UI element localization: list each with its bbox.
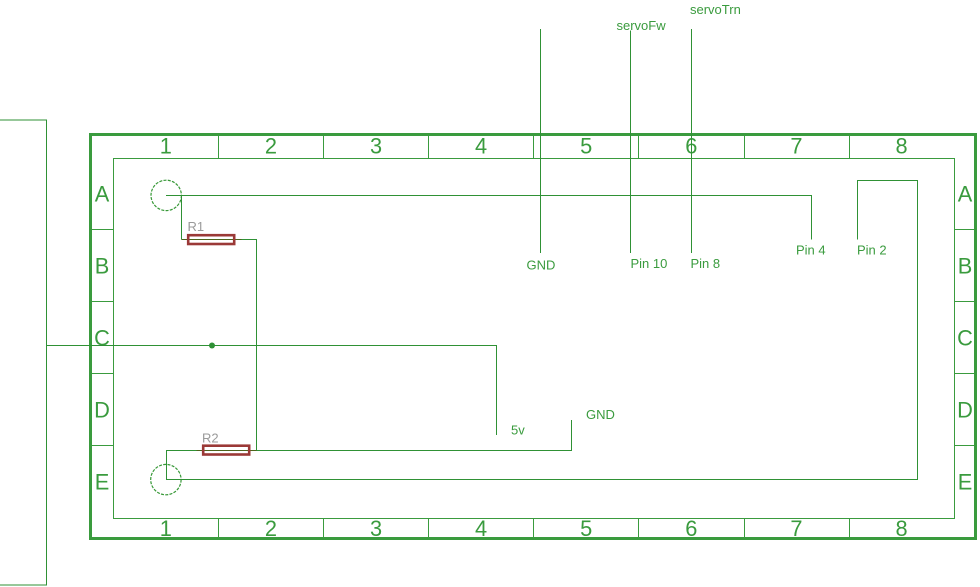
svg-text:GND: GND [586, 407, 615, 422]
svg-text:6: 6 [685, 516, 697, 541]
svg-text:D: D [94, 398, 110, 423]
resistor R2 [203, 446, 249, 455]
svg-text:7: 7 [790, 133, 802, 158]
svg-text:Pin 4: Pin 4 [796, 243, 826, 258]
svg-text:5: 5 [580, 133, 592, 158]
column labels 1-8 bottom [160, 516, 908, 541]
svg-text:Pin 2: Pin 2 [857, 243, 887, 258]
breadboard inner rect [114, 159, 955, 519]
svg-text:servoFw: servoFw [617, 18, 667, 33]
svg-text:E: E [95, 470, 110, 495]
svg-text:C: C [957, 326, 973, 351]
resistor R1 lead [182, 239, 242, 241]
wire A1 branch down to R1 [181, 196, 183, 240]
wire R2 left to hole E1 [167, 451, 197, 480]
wire net C from off-board component, with 5v stub [47, 346, 497, 436]
column labels 1-8 top [160, 133, 908, 158]
svg-text:2: 2 [265, 133, 277, 158]
svg-text:8: 8 [895, 133, 907, 158]
row divider ticks, right column [955, 230, 975, 446]
wire servoTrn vertical [691, 29, 693, 253]
wire E1 to Pin 2 [166, 181, 918, 480]
svg-text:3: 3 [370, 516, 382, 541]
breadboard outer border [91, 135, 976, 539]
svg-text:5v: 5v [511, 423, 525, 438]
svg-text:3: 3 [370, 133, 382, 158]
svg-text:4: 4 [475, 516, 487, 541]
svg-text:1: 1 [160, 133, 172, 158]
svg-text:D: D [957, 398, 973, 423]
svg-text:B: B [95, 254, 110, 279]
row labels A-E right [957, 182, 973, 495]
row labels A-E left [94, 182, 110, 495]
svg-text:1: 1 [160, 516, 172, 541]
hole E1 (dashed circle) [151, 464, 181, 494]
wire GND vertical (column 5) [540, 29, 542, 253]
svg-text:7: 7 [790, 516, 802, 541]
wire A1 to Pin 4 [166, 196, 811, 240]
wire R2 right to GND stub [257, 420, 572, 451]
svg-text:servoTrn: servoTrn [690, 2, 741, 17]
svg-text:2: 2 [265, 516, 277, 541]
svg-text:Pin 10: Pin 10 [631, 256, 668, 271]
resistor R2 lead [197, 450, 257, 452]
wire servoFw vertical [630, 31, 632, 254]
svg-text:C: C [94, 326, 110, 351]
svg-text:5: 5 [580, 516, 592, 541]
resistor R1 [188, 235, 234, 244]
column divider ticks, bottom row [219, 519, 850, 538]
svg-text:B: B [958, 254, 973, 279]
svg-text:E: E [958, 470, 973, 495]
junction node on net C [209, 343, 215, 349]
svg-text:R2: R2 [202, 431, 219, 446]
svg-text:A: A [95, 182, 110, 207]
wire R1 right down to R2 right [242, 240, 257, 451]
hole A1 (dashed circle) [151, 180, 181, 210]
svg-text:A: A [958, 182, 973, 207]
off-board component bracket (left edge) [0, 120, 47, 585]
svg-text:8: 8 [895, 516, 907, 541]
column divider ticks, top row [219, 135, 850, 158]
svg-text:GND: GND [527, 258, 556, 273]
svg-text:Pin 8: Pin 8 [691, 256, 721, 271]
svg-text:R1: R1 [188, 219, 205, 234]
svg-text:4: 4 [475, 133, 487, 158]
row divider ticks, left column [92, 230, 114, 446]
